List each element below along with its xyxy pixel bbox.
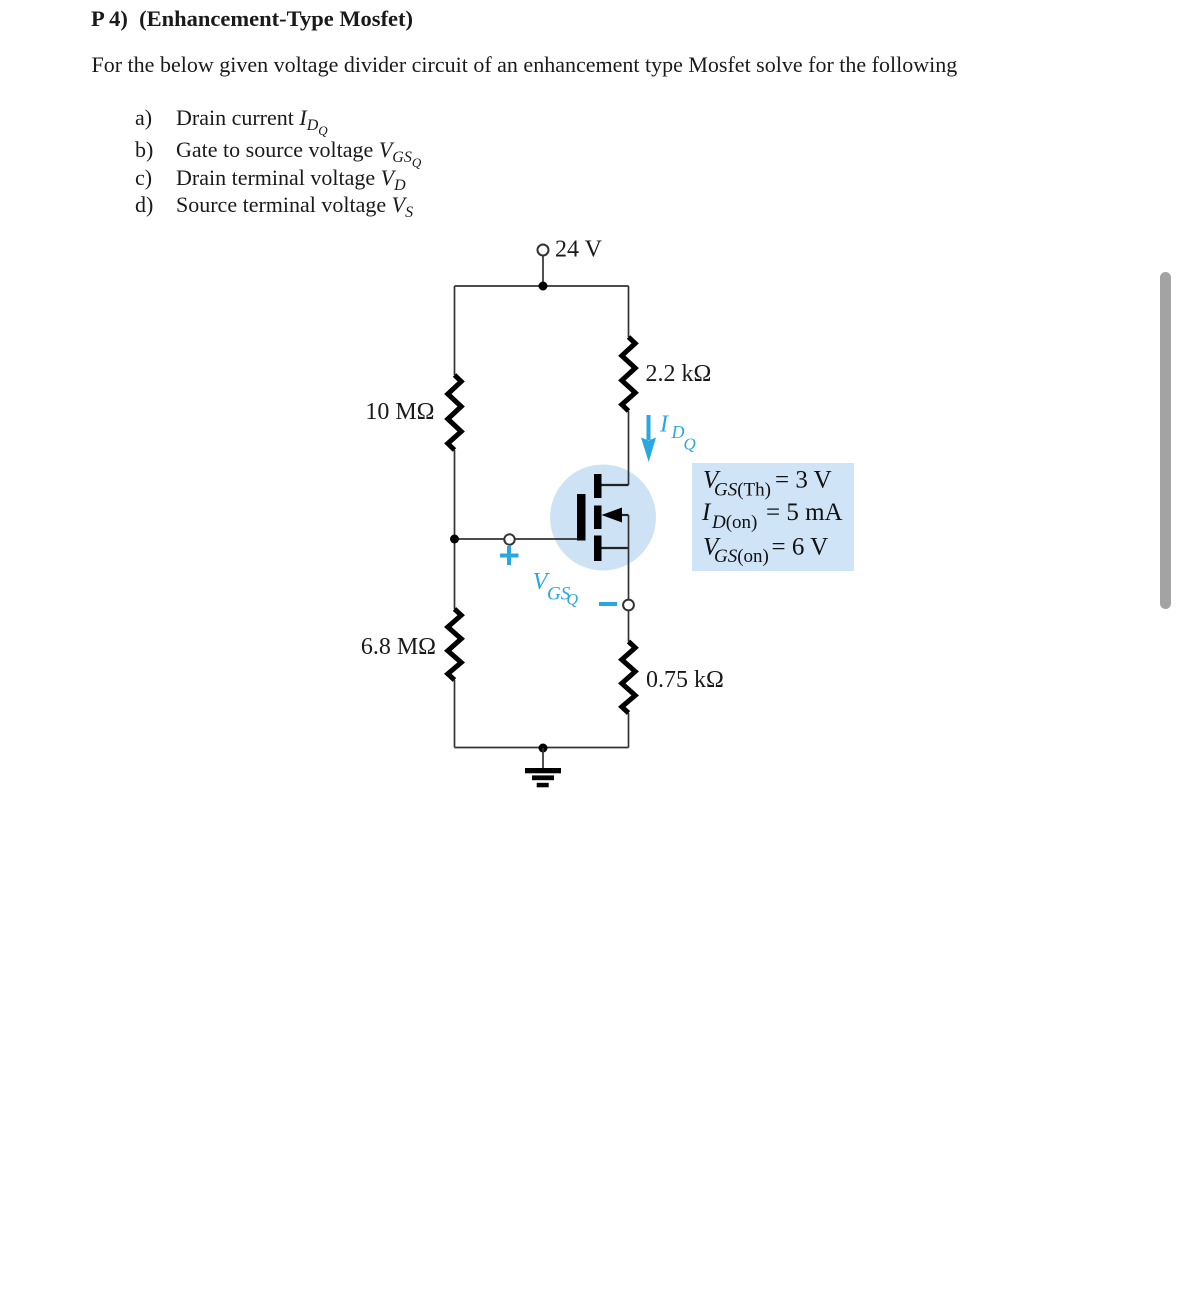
- node junction gate: [450, 535, 459, 544]
- svg-text:10 MΩ: 10 MΩ: [365, 399, 434, 425]
- ground bar 2: [532, 775, 554, 780]
- plus sign: [500, 546, 519, 565]
- svg-text:0.75 kΩ: 0.75 kΩ: [646, 667, 724, 693]
- node junction top: [539, 282, 548, 291]
- resistor RS 0.75 kohm: [622, 642, 635, 714]
- wire left vertical upper: [454, 286, 456, 375]
- scrollbar thumb: [1160, 272, 1171, 609]
- svg-text:D: D: [671, 422, 685, 442]
- svg-text:= 6 V: = 6 V: [772, 534, 829, 561]
- label IDQ: [659, 412, 696, 454]
- wire left vertical lower: [454, 680, 456, 748]
- label RD value 2.2 kohm: [646, 361, 712, 387]
- supply terminal circle: [538, 245, 549, 256]
- supply stub wire: [542, 256, 544, 287]
- list item b: [135, 139, 153, 161]
- ground bar 1: [525, 768, 561, 773]
- list item d: [135, 194, 153, 216]
- ground bar 3: [537, 783, 549, 788]
- label R2 value 6.8 Mohm: [361, 634, 436, 660]
- mosfet halo circle: [550, 465, 656, 571]
- svg-text:6.8 MΩ: 6.8 MΩ: [361, 634, 436, 660]
- wire top horizontal: [455, 285, 629, 287]
- wire to RS: [628, 610, 630, 642]
- wire RS to bottom: [628, 713, 630, 748]
- wire right vertical to drain: [628, 411, 630, 485]
- label VGSQ: [533, 569, 579, 609]
- svg-text:D(on): D(on): [711, 512, 757, 533]
- current arrow IDQ: [641, 415, 656, 462]
- info box line 2 ID(on): [701, 499, 843, 533]
- gate wire: [455, 538, 578, 540]
- label R1 value 10 Mohm: [365, 399, 434, 425]
- mosfet Q1 channel middle bar: [594, 506, 602, 530]
- mosfet source lead: [602, 547, 629, 549]
- gate open terminal: [504, 534, 514, 544]
- title: [91, 8, 413, 31]
- mosfet drain lead: [602, 484, 629, 486]
- minus sign: [599, 602, 617, 606]
- mosfet substrate arrow: [602, 508, 629, 523]
- list item a: [135, 107, 152, 129]
- mosfet Q1 channel bottom bar: [594, 536, 602, 562]
- info box: [692, 463, 854, 571]
- mosfet Q1 gate bar: [577, 494, 586, 541]
- source open terminal: [623, 600, 634, 611]
- list item c: [135, 167, 152, 189]
- svg-text:Q: Q: [684, 435, 696, 454]
- svg-text:= 5 mA: = 5 mA: [766, 499, 843, 526]
- node junction ground: [539, 744, 548, 753]
- resistor RD 2.2 kohm: [622, 337, 635, 411]
- svg-text:Q: Q: [567, 592, 579, 609]
- svg-text:GS(on): GS(on): [714, 546, 769, 567]
- label RS value 0.75 kohm: [646, 667, 724, 693]
- label 24 V: [555, 237, 603, 263]
- wire right vertical from source: [628, 515, 630, 600]
- wire left vertical middle: [454, 450, 456, 609]
- mosfet Q1 channel top bar: [594, 474, 602, 498]
- ground stem: [542, 748, 544, 768]
- svg-text:24 V: 24 V: [555, 237, 603, 263]
- info box line 3 VGS(on): [703, 534, 828, 568]
- svg-text:I: I: [659, 412, 669, 438]
- wire right vertical top: [628, 286, 630, 337]
- svg-text:= 3 V: = 3 V: [775, 467, 832, 494]
- info box line 1 VGS(Th): [703, 467, 832, 501]
- resistor R1 10 Mohm: [448, 375, 461, 450]
- paragraph: [92, 54, 958, 76]
- svg-text:2.2 kΩ: 2.2 kΩ: [646, 361, 712, 387]
- svg-text:GS(Th): GS(Th): [714, 480, 771, 501]
- resistor R2 6.8 Mohm: [448, 609, 461, 680]
- wire bottom horizontal: [455, 747, 629, 749]
